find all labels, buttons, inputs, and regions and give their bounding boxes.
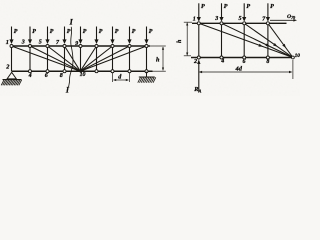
- dimension h (right figure): [184, 21, 192, 23]
- svg-text:P: P: [224, 4, 228, 10]
- load P arrow at x=96.5: [96, 27, 98, 41]
- svg-text:4: 4: [28, 73, 32, 79]
- svg-text:10: 10: [295, 53, 300, 59]
- diagonal force line from x=244.2 to node 10: [244, 23, 293, 57]
- svg-text:h: h: [156, 57, 160, 64]
- vertical member at x=221.5: [221, 23, 223, 57]
- load P arrow at x=11.5: [11, 27, 13, 41]
- svg-text:1: 1: [6, 39, 9, 46]
- vertical member at node x=112.5: [112, 46, 114, 71]
- load P arrow at x=80.5: [80, 27, 82, 41]
- svg-text:2: 2: [193, 58, 197, 65]
- svg-text:P: P: [246, 4, 250, 10]
- vertical member at x=267.9: [267, 23, 269, 57]
- vertical member at node x=30.0: [29, 46, 31, 71]
- node circles top: [197, 22, 200, 25]
- load P arrow at x=47.5: [47, 27, 49, 41]
- left figure: fan truss with section I-I: [1, 18, 166, 95]
- fan diagonal from top node x=64.5 to node 10: [65, 46, 81, 71]
- load P arrow at x=244.2: [243, 3, 245, 18]
- svg-text:6: 6: [45, 73, 48, 79]
- load P arrow at x=221.5: [221, 3, 223, 18]
- svg-text:5: 5: [39, 40, 42, 46]
- vertical member at node x=80.5: [80, 46, 82, 71]
- svg-text:4d: 4d: [235, 66, 243, 73]
- svg-text:8: 8: [60, 73, 63, 79]
- section line I-I wavy: [69, 27, 74, 88]
- svg-text:9: 9: [75, 41, 78, 47]
- vertical member at node x=11.5: [11, 46, 13, 71]
- vertical member at node x=129.5: [129, 46, 131, 71]
- pinned support at node 2: [7, 72, 16, 79]
- svg-text:P: P: [201, 4, 205, 10]
- bottom node circles: [29, 70, 32, 73]
- diagonal force line from x=267.9 to node 10: [268, 23, 293, 57]
- bottom chord 2-10: [12, 70, 153, 72]
- vertical member at node x=146.5: [146, 46, 148, 71]
- diagonal force line from x=221.5 to node 10: [222, 23, 293, 57]
- right figure: left half free body: [177, 3, 300, 93]
- svg-text:P: P: [67, 29, 71, 35]
- svg-text:4: 4: [220, 59, 224, 65]
- right end support: [146, 72, 148, 77]
- load P arrow at x=112.5: [112, 27, 114, 41]
- vertical member at node x=96.5: [96, 46, 98, 71]
- load P arrow at x=198.8: [198, 3, 200, 18]
- fan diagonal from top node x=47.5 to node 10: [48, 46, 81, 71]
- svg-text:5: 5: [239, 16, 242, 22]
- svg-text:3: 3: [214, 16, 218, 22]
- force O79 arrow at cut: [270, 19, 294, 21]
- extension line below node 10: [292, 60, 294, 79]
- vertical member at node x=64.5: [64, 46, 66, 71]
- svg-text:1: 1: [193, 17, 196, 23]
- diagonal force line from x=198.8 to node 10: [199, 23, 293, 57]
- load P arrow at x=267.9: [267, 3, 269, 18]
- vertical member at x=244.2: [243, 23, 245, 57]
- reaction R_A: [198, 63, 200, 92]
- dimension 4d: [200, 71, 292, 73]
- load P arrow at x=64.5: [64, 27, 66, 41]
- svg-text:P: P: [32, 29, 36, 35]
- bottom chord 2-10: [191, 57, 293, 59]
- svg-text:10: 10: [80, 72, 86, 78]
- dimension h (left figure): [162, 47, 164, 70]
- fan diagonal from top node x=11.5 to node 10: [12, 46, 81, 71]
- svg-text:P: P: [83, 29, 87, 35]
- svg-text:2: 2: [5, 64, 9, 71]
- load P arrow at x=146.5: [146, 27, 148, 41]
- fan diagonal from top node x=129.5 to node 10: [80, 46, 129, 71]
- svg-text:P: P: [99, 29, 103, 35]
- vertical member at node x=47.5: [47, 46, 49, 71]
- svg-text:P: P: [149, 29, 153, 35]
- top node circles: [10, 45, 13, 48]
- node circles bottom: [197, 56, 200, 59]
- svg-text:P: P: [14, 29, 18, 35]
- fan diagonal from top node x=146.5 to node 10: [80, 46, 146, 71]
- fan diagonal from top node x=96.5 to node 10: [80, 46, 96, 71]
- bottom chord extension: [153, 70, 166, 72]
- fan diagonal from top node x=112.5 to node 10: [80, 46, 112, 71]
- svg-text:3: 3: [21, 40, 25, 46]
- top chord 1-7 with cut stub: [192, 22, 287, 24]
- svg-text:O79: O79: [287, 14, 295, 20]
- svg-text:8: 8: [266, 59, 269, 65]
- dimension d: [112, 73, 114, 82]
- fan diagonal from top node x=30.0 to node 10: [30, 46, 80, 71]
- svg-text:P: P: [115, 29, 119, 35]
- svg-text:P: P: [50, 29, 54, 35]
- svg-text:P: P: [132, 29, 136, 35]
- load P arrow at x=30.0: [29, 27, 31, 41]
- load P arrow at x=129.5: [129, 27, 131, 41]
- svg-text:6: 6: [243, 59, 246, 65]
- node 10 junction: [79, 70, 81, 72]
- top chord 1-9: [12, 45, 151, 47]
- vertical member at x=198.8: [198, 23, 200, 57]
- svg-text:P: P: [270, 4, 274, 10]
- top chord extension: [150, 45, 166, 47]
